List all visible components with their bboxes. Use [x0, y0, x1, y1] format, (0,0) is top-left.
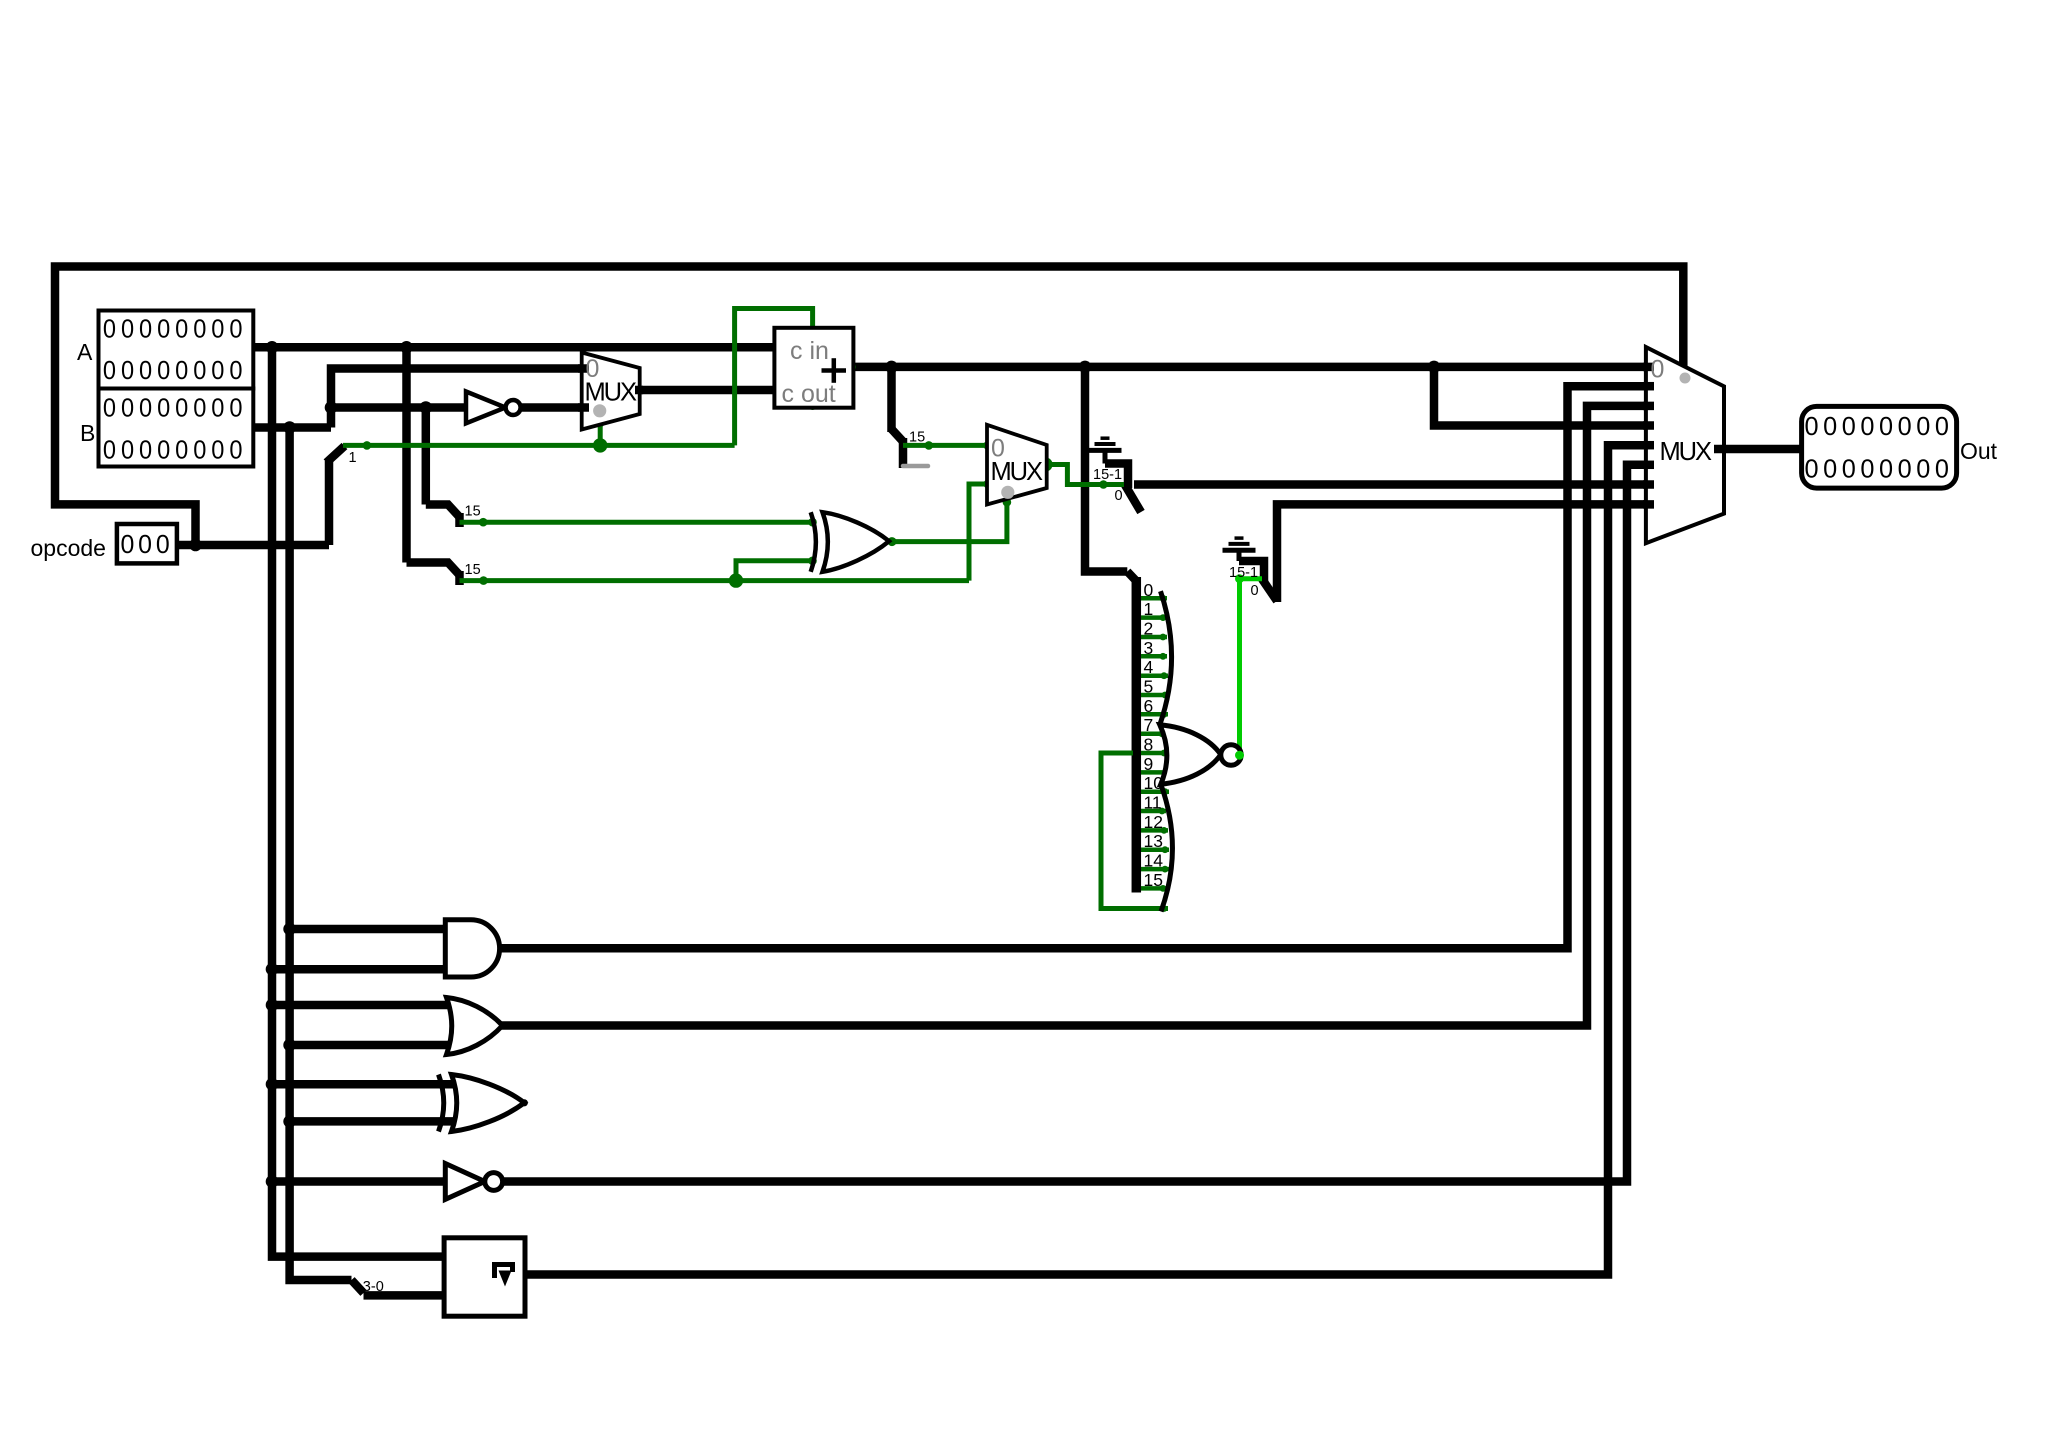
gate XOR1	[439, 1075, 525, 1132]
svg-text:3: 3	[1144, 638, 1154, 658]
node A-bus/V3 junction	[400, 341, 413, 354]
wire OR in2 from V2	[290, 1041, 454, 1050]
wire MUX1 select stub	[598, 421, 603, 445]
mux MUX1	[578, 353, 643, 430]
node adder-bus/splitter3 junction	[885, 361, 898, 374]
svg-text:14: 14	[1144, 851, 1164, 871]
svg-text:15-1: 15-1	[1229, 565, 1258, 581]
wire AND in1 from V2	[290, 925, 447, 934]
gate NOT1 (B inverter)	[466, 392, 521, 424]
svg-text:10: 10	[1144, 773, 1164, 793]
node V2/AND1 junction	[283, 923, 296, 936]
wire XOR2 output to MUX2 select	[892, 501, 1007, 542]
wire right MUX output to Out pin	[1722, 445, 1803, 454]
input pin opcode	[31, 524, 177, 563]
svg-text:15-1: 15-1	[1093, 467, 1122, 483]
wire in4 drop	[1434, 367, 1646, 426]
wire B15 to XOR2 in1	[460, 520, 813, 525]
wire splitter2 bus to MUX in8	[1277, 504, 1646, 602]
shifter SH1 (rotate left)	[444, 1238, 525, 1316]
node V2/XOR2 junction	[283, 1115, 296, 1128]
node V1/NOT2 junction	[266, 1175, 279, 1188]
splitter S1 opcode bit1 (label 1)	[327, 446, 345, 463]
wire V3 A bit15 drop	[402, 347, 411, 562]
svg-text:Out: Out	[1960, 438, 1998, 464]
svg-text:00000000: 00000000	[103, 314, 248, 344]
wire V2 B drop	[290, 428, 352, 1281]
gate XOR2 (overflow compare)	[811, 512, 889, 572]
wire NOT2 input from V1	[272, 1177, 447, 1186]
node B-bus/V2 junction	[283, 421, 296, 434]
wire A bus to adder	[251, 343, 776, 352]
wire A15 line	[460, 578, 970, 583]
svg-text:00000000: 00000000	[103, 393, 248, 423]
input pin A	[77, 311, 253, 389]
WIRES_GREEN	[343, 309, 1168, 909]
splitter S4 adder bit15 (label 15)	[892, 429, 904, 468]
node NOR output port dot	[1235, 751, 1244, 760]
svg-text:MUX: MUX	[991, 458, 1044, 486]
svg-text:11: 11	[1144, 793, 1162, 813]
bright dots on NOR output	[1234, 574, 1244, 760]
svg-text:3-0: 3-0	[363, 1279, 384, 1295]
splitter S8 fan 16-bit to NOR	[1127, 572, 1136, 893]
wire opcode row	[174, 541, 329, 550]
node border/opcode junction	[189, 539, 202, 552]
wire OR output to V-B riser MUX in3	[500, 406, 1646, 1026]
wire XOR in2 from V2	[290, 1117, 458, 1126]
svg-text:9: 9	[1144, 754, 1154, 774]
wire AND in2 from V1	[272, 965, 447, 974]
adder U1	[774, 328, 853, 408]
output pin Out	[1802, 406, 1998, 488]
svg-text:1: 1	[349, 450, 357, 466]
wire shifter shift-amount bus	[364, 1291, 446, 1300]
node A-bus/V1 junction	[266, 341, 279, 354]
wire B branch to NOT input	[331, 403, 467, 412]
wire V1 A drop	[272, 347, 445, 1256]
svg-text:6: 6	[1144, 696, 1154, 716]
svg-text:7: 7	[1144, 715, 1154, 735]
node V1/XOR1 junction	[266, 1078, 279, 1091]
splitter S7 opcode 3-0 for shifter	[352, 1280, 364, 1293]
node V1/AND2 junction	[266, 963, 279, 976]
svg-text:0: 0	[1251, 583, 1259, 599]
node sel1 junction	[593, 438, 607, 452]
svg-text:8: 8	[1144, 735, 1154, 755]
svg-text:15: 15	[909, 430, 925, 446]
gate NOT2	[445, 1164, 502, 1200]
splitter S6 rebuild bus 15-1/0 right	[1239, 561, 1277, 601]
wire splitter3 drop	[887, 367, 896, 432]
wire carry-in loop	[735, 309, 813, 446]
wire OR in1 from V1	[272, 1001, 454, 1010]
svg-text:MUX: MUX	[1660, 438, 1713, 466]
node MUX2 output junction	[1039, 458, 1053, 472]
node A15/XOR2 branch junction	[729, 573, 743, 587]
wire A15 up to MUX2 in2	[969, 484, 987, 581]
TEXT LABELS small	[349, 430, 1259, 1296]
svg-text:2: 2	[1144, 619, 1154, 639]
gate NOR1 16-bit zero detect	[1160, 591, 1241, 911]
wire AND output to V-A riser MUX in2	[500, 386, 1646, 948]
svg-text:15: 15	[465, 504, 481, 520]
svg-text:000: 000	[121, 529, 174, 559]
svg-text:00000000: 00000000	[103, 435, 248, 465]
wire MUX2 output to splitter S5	[1046, 465, 1124, 485]
svg-text:1: 1	[1144, 599, 1154, 619]
node V1/OR1 junction	[266, 999, 279, 1012]
splitter S2 B bit15 (label 15)	[426, 505, 460, 528]
mux MUX2	[987, 425, 1047, 505]
node XOR1 unconnected output	[521, 1099, 528, 1106]
wire outer border opcode feedback loop	[55, 267, 1683, 546]
input pin B	[80, 389, 253, 467]
wire NOT2 output to V-D riser MUX in6	[503, 465, 1646, 1182]
svg-text:5: 5	[1144, 677, 1154, 697]
svg-text:00000000: 00000000	[1805, 411, 1954, 441]
svg-text:MUX: MUX	[585, 379, 638, 407]
node V2/OR2 junction	[283, 1039, 296, 1052]
wire MUX1 output to adder in2	[639, 386, 777, 395]
wire fan drop	[1085, 367, 1127, 572]
wire adder15 to MUX2 in1	[903, 443, 987, 448]
wire shifter output to V-C riser MUX in5	[523, 445, 1646, 1274]
splitter S3 A bit15 (label 15)	[407, 563, 460, 586]
ground G2 for splitter S6	[1223, 538, 1256, 561]
NOR fan stubs	[1141, 598, 1170, 888]
ground G1 for splitter S5	[1089, 438, 1122, 463]
WIRES_BLACK	[55, 267, 1803, 1296]
gate OR1	[447, 998, 503, 1055]
wire adder output bus to right MUX in1	[849, 363, 1646, 372]
svg-text:c out: c out	[782, 380, 836, 408]
wire NOR loop input bit	[1101, 753, 1168, 909]
node B-vertical/NOT-row junction	[325, 401, 338, 414]
wire B bus	[251, 423, 331, 432]
mux MUX3 output 8-way	[1643, 347, 1726, 543]
wire opcode splitter spine riser	[325, 461, 334, 545]
wire splitter1 bus to MUX in7	[1134, 480, 1646, 489]
wire V4 B bit15 drop	[422, 408, 431, 505]
node adder-bus/fan junction	[1079, 361, 1092, 374]
svg-text:15: 15	[465, 562, 481, 578]
svg-text:A: A	[77, 339, 93, 365]
svg-text:0: 0	[1115, 488, 1123, 504]
svg-text:13: 13	[1144, 831, 1163, 851]
wire opcode bit1 select line	[343, 443, 735, 448]
NOR fan bit index labels	[1144, 580, 1164, 890]
splitter S5 rebuild bus 15-1/0 left	[1105, 464, 1141, 513]
svg-text:B: B	[80, 420, 95, 446]
svg-text:0: 0	[1651, 356, 1665, 384]
node adder-bus/in4 junction	[1428, 361, 1441, 374]
svg-text:00000000: 00000000	[1805, 454, 1954, 484]
wire NOT1 output to MUX1 in2	[521, 403, 583, 412]
svg-text:4: 4	[1144, 657, 1154, 677]
gate AND1	[445, 920, 499, 977]
svg-text:0: 0	[1144, 580, 1154, 600]
svg-text:12: 12	[1144, 812, 1163, 832]
grey unconnected stub of splitter S4	[903, 464, 928, 469]
svg-text:opcode: opcode	[31, 535, 106, 561]
wire A15 branch to XOR2 in2	[736, 561, 813, 581]
SPLITTERS	[327, 429, 1278, 1293]
GREEN DOTS	[363, 326, 1108, 588]
svg-text:c in: c in	[790, 337, 829, 365]
wire NOR output (value 1, bright)	[1240, 579, 1263, 756]
svg-text:00000000: 00000000	[103, 355, 248, 385]
wire B up to MUX1 in1	[331, 369, 583, 428]
node NOT-row/V4 junction	[420, 401, 433, 414]
wire XOR in1 from V1	[272, 1080, 458, 1089]
svg-text:15: 15	[1144, 870, 1163, 890]
